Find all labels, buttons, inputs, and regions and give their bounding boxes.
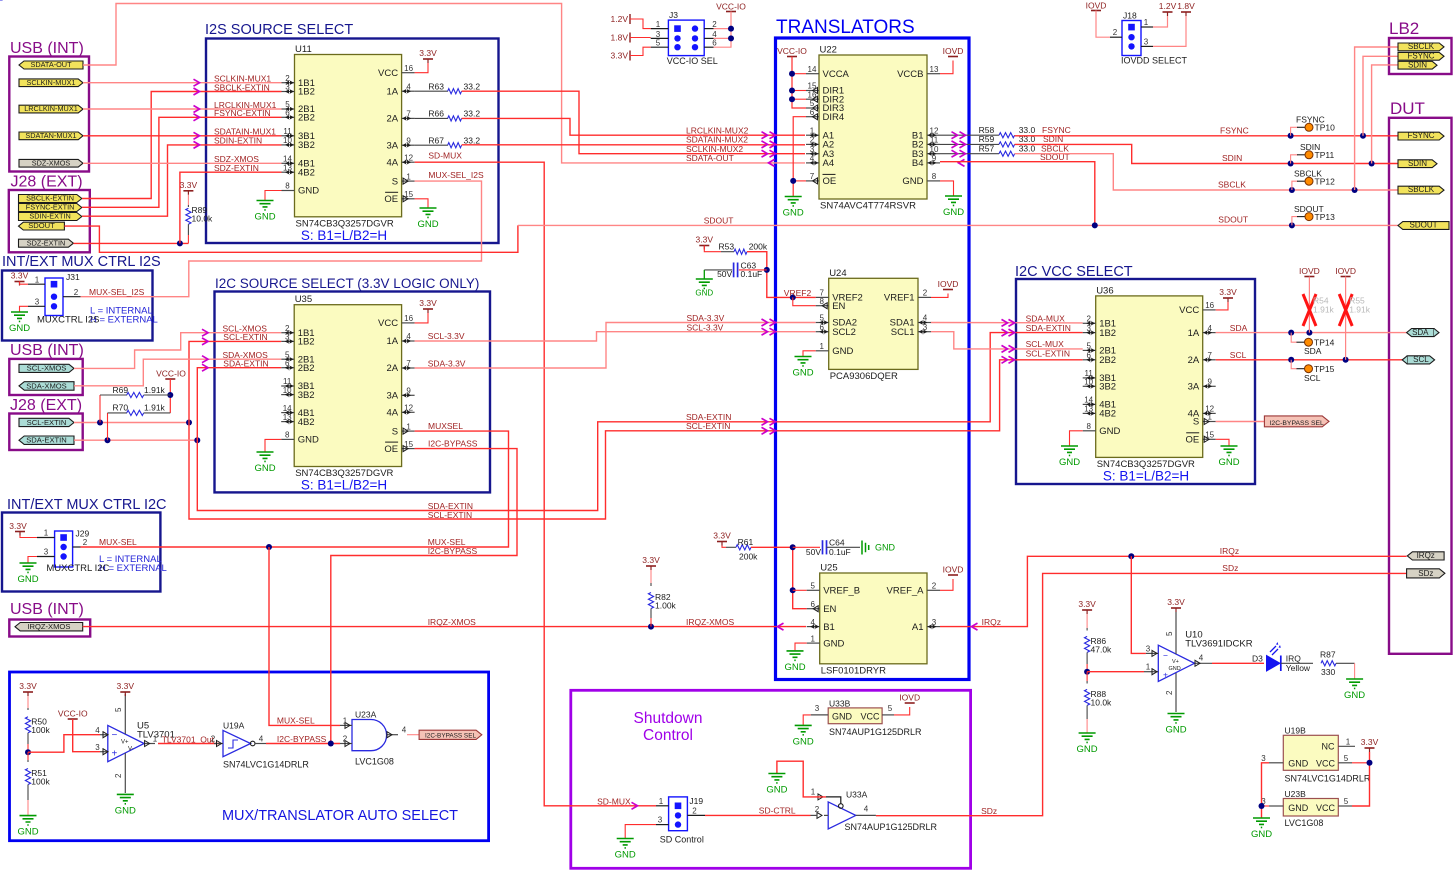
svg-text:10: 10 (283, 386, 292, 395)
wire SDOUT to TP13 (1292, 217, 1298, 226)
svg-text:5: 5 (656, 39, 661, 48)
net label MUX-SEL_I2S at J31 (89, 287, 145, 297)
svg-text:S: S (1193, 417, 1199, 428)
svg-text:GND: GND (298, 435, 319, 446)
wire SD-MUX long (415, 162, 656, 806)
svg-text:SBCLK: SBCLK (1218, 180, 1246, 190)
power 3.3V at J31 (11, 271, 29, 286)
svg-text:5: 5 (819, 314, 824, 323)
svg-text:GND: GND (784, 662, 805, 673)
net label SDOUT mid (1040, 152, 1070, 162)
svg-text:6: 6 (810, 108, 815, 117)
svg-text:8: 8 (285, 182, 290, 191)
svg-text:PCA9306DQER: PCA9306DQER (830, 371, 898, 382)
connector J31 (28, 272, 81, 316)
svg-text:R70: R70 (113, 403, 129, 413)
junction (1288, 161, 1294, 167)
svg-text:R66: R66 (428, 109, 444, 119)
junction (1306, 330, 1312, 336)
resistor R67 33.2 (415, 135, 481, 148)
port SDZ-XMOS (19, 158, 83, 167)
svg-text:1: 1 (810, 126, 815, 135)
power VCC-IO at U22 (777, 46, 807, 108)
svg-text:J18: J18 (1123, 11, 1137, 21)
svg-text:1B2: 1B2 (1099, 328, 1116, 339)
svg-text:33.2: 33.2 (464, 109, 481, 119)
svg-text:GND: GND (115, 805, 136, 816)
port SDATA-OUT (19, 60, 83, 69)
svg-text:1A: 1A (386, 336, 398, 347)
svg-text:16: 16 (404, 314, 413, 323)
svg-text:INT/EXT MUX CTRL I2S: INT/EXT MUX CTRL I2S (2, 254, 161, 270)
wire SBCLK to TP12 (1292, 181, 1298, 190)
wire SDATAN-MUX1 (83, 135, 282, 137)
wire SDOUT long to DUT (518, 224, 1398, 226)
IC U22 SN74AVC4T774RSVR (806, 45, 940, 212)
wire R61 to VREF_B (751, 547, 807, 608)
svg-text:H = EXTERNAL: H = EXTERNAL (90, 315, 158, 326)
section INT/EXT MUX CTRL I2S (2, 254, 161, 341)
svg-text:OE: OE (384, 194, 398, 205)
svg-text:MUX-SEL_I2S: MUX-SEL_I2S (89, 287, 145, 297)
power IOVD at J18 (1086, 1, 1110, 38)
svg-text:EN: EN (823, 604, 836, 615)
svg-text:3B2: 3B2 (298, 140, 315, 151)
svg-text:U35: U35 (295, 294, 312, 305)
svg-text:IRQZ-XMOS: IRQZ-XMOS (428, 617, 476, 627)
svg-text:2B2: 2B2 (298, 363, 315, 374)
section I2C SOURCE SELECT (215, 276, 491, 492)
ground U33B (793, 715, 814, 748)
svg-text:6: 6 (285, 109, 290, 118)
svg-text:I2C VCC SELECT: I2C VCC SELECT (1015, 264, 1133, 280)
net label SDA-XMOS at U35 (223, 350, 269, 360)
svg-text:3: 3 (285, 333, 290, 342)
port DUT SBCLK (1398, 185, 1444, 194)
buffer U33A SN74AUP1G125DRLR (811, 788, 938, 833)
svg-text:LB2: LB2 (1389, 19, 1419, 38)
ground at J19 (615, 825, 656, 861)
ground C63 (695, 270, 713, 298)
svg-text:3: 3 (658, 816, 663, 825)
svg-text:4: 4 (406, 332, 411, 341)
svg-text:4B2: 4B2 (298, 417, 315, 428)
connector J19 (656, 796, 705, 845)
port SCL-EXTIN (19, 418, 74, 427)
test point TP15 (1297, 364, 1335, 383)
wire DIR4 OE to ground (793, 117, 806, 196)
svg-text:50V: 50V (806, 547, 821, 557)
net label SDA (1230, 323, 1248, 333)
svg-text:IOVD: IOVD (1335, 266, 1356, 276)
wire SDZ-EXTIN branch to 4B2 (180, 172, 282, 243)
ground U24 (792, 351, 815, 379)
svg-text:SDA: SDA (1230, 323, 1248, 333)
chevrons U35 left (202, 329, 208, 371)
power 1.8V at J18 (1153, 1, 1195, 46)
resistor R59 33.0 (940, 134, 1036, 147)
resistor R82 1.00k (642, 555, 676, 627)
resistor R51 100k (25, 752, 50, 815)
resistor R86 47.0k (1078, 599, 1112, 672)
svg-text:1: 1 (819, 342, 824, 351)
wire SCLKIN-MUX1 (83, 82, 282, 84)
wire SCL-XMOS (74, 333, 281, 369)
power IOVD at U24 (931, 279, 958, 297)
svg-text:SN74LVC1G14DRLR: SN74LVC1G14DRLR (1285, 773, 1371, 783)
net label SBCLK-EXTIN (214, 82, 270, 92)
svg-text:3: 3 (1144, 37, 1149, 46)
net label SCLKIN-MUX2 (686, 144, 743, 154)
junction (194, 437, 200, 443)
svg-text:14: 14 (808, 65, 817, 74)
wire SCL out (1216, 359, 1407, 361)
svg-text:GND: GND (875, 543, 896, 553)
note S: B1=L/B2=H (301, 228, 387, 243)
svg-text:GND: GND (1251, 829, 1272, 840)
svg-text:OE: OE (1185, 435, 1199, 446)
svg-text:3.3V: 3.3V (117, 681, 135, 691)
resistor R58 33.0 (940, 125, 1036, 138)
svg-text:NC: NC (1322, 741, 1335, 751)
svg-text:SDIN: SDIN (1300, 142, 1320, 152)
resistor R61 200k (713, 531, 758, 562)
chevron IRQz (972, 623, 978, 630)
svg-text:SDA-3.3V: SDA-3.3V (428, 359, 466, 369)
svg-text:12: 12 (930, 126, 939, 135)
net label SCL-3.3V at U35 (428, 331, 465, 341)
svg-text:3.3V: 3.3V (419, 48, 437, 58)
net label IRQz right (1220, 546, 1239, 556)
svg-text:SDA-EXTIN: SDA-EXTIN (26, 436, 67, 445)
svg-text:4: 4 (923, 314, 928, 323)
svg-text:3.3V: 3.3V (9, 521, 27, 531)
svg-text:SD-MUX: SD-MUX (597, 797, 631, 807)
svg-text:TRANSLATORS: TRANSLATORS (776, 17, 915, 38)
svg-text:SCL-3.3V: SCL-3.3V (428, 331, 465, 341)
svg-text:S: B1=L/B2=H: S: B1=L/B2=H (301, 478, 387, 493)
svg-text:USB (INT): USB (INT) (10, 40, 84, 57)
connector J29 (37, 529, 89, 568)
port LRCLKIN-MUX1 (19, 104, 83, 113)
port DUT SDA (1407, 328, 1439, 337)
svg-text:0.1uF: 0.1uF (741, 269, 763, 279)
svg-text:GND: GND (695, 289, 713, 298)
net label SD-CTRL (759, 806, 796, 816)
svg-text:IRQ: IRQ (1286, 653, 1302, 663)
svg-text:IRQz: IRQz (1417, 551, 1435, 560)
svg-text:VCCA: VCCA (823, 69, 850, 80)
svg-text:330: 330 (1321, 667, 1335, 677)
wire SDIN-EXTIN (82, 145, 282, 216)
svg-text:GND: GND (1288, 803, 1309, 813)
wire SDA-MUX (931, 322, 1083, 324)
svg-text:1: 1 (1346, 737, 1351, 746)
capacitor C63 0.1uF (704, 261, 767, 280)
svg-text:VREF_B: VREF_B (823, 586, 860, 597)
net label SDA-EXTIN at U36 (1026, 323, 1071, 333)
svg-text:LRCLKIN-MUX1: LRCLKIN-MUX1 (24, 104, 78, 113)
svg-text:1: 1 (44, 529, 49, 538)
svg-text:GND: GND (1077, 744, 1098, 755)
svg-text:33.2: 33.2 (464, 135, 481, 145)
group DUT (1389, 99, 1452, 654)
svg-text:IRQz: IRQz (1220, 546, 1239, 556)
svg-text:GND: GND (1288, 758, 1309, 768)
svg-text:10.0k: 10.0k (1091, 698, 1113, 708)
junction (789, 71, 795, 77)
svg-text:MUX-SEL: MUX-SEL (277, 716, 315, 726)
svg-text:1.91k: 1.91k (144, 385, 166, 395)
svg-text:U11: U11 (295, 44, 312, 55)
svg-text:B4: B4 (912, 158, 924, 169)
svg-text:47.0k: 47.0k (1091, 645, 1113, 655)
svg-text:3: 3 (44, 548, 49, 557)
svg-text:3.3V: 3.3V (642, 555, 660, 565)
net label FSYNC-EXTIN (214, 108, 271, 118)
chevrons into translators A side (762, 132, 776, 167)
svg-text:VCC-IO: VCC-IO (156, 369, 186, 379)
svg-text:U22: U22 (820, 45, 837, 56)
junction (1369, 161, 1375, 167)
svg-text:1: 1 (35, 275, 40, 284)
junction (1128, 553, 1134, 559)
resistor R70 1.91k (0, 0, 170, 440)
junction (1259, 803, 1265, 809)
port I2C-BYPASS SEL at U36 (1216, 416, 1329, 427)
svg-text:100k: 100k (31, 777, 50, 787)
svg-text:GND: GND (766, 785, 787, 796)
ground at J29 (17, 557, 38, 586)
net label SCL-EXTIN mid (428, 510, 472, 520)
svg-text:SCL2: SCL2 (832, 327, 856, 338)
wire SDOUT from B4 (940, 162, 1095, 226)
junction (1288, 357, 1294, 363)
test point TP11 (1297, 142, 1334, 160)
svg-text:SBCLK-EXTIN: SBCLK-EXTIN (26, 194, 74, 203)
junction (1288, 133, 1294, 139)
svg-text:I2C-BYPASS SEL: I2C-BYPASS SEL (1270, 420, 1324, 427)
svg-text:1.8V: 1.8V (611, 33, 629, 43)
net label IRQZ-XMOS right (686, 617, 734, 627)
power 3.3V U11 VCC (415, 48, 437, 73)
net label SDZ-XMOS (214, 154, 259, 164)
net label SBCLK right (1218, 180, 1246, 190)
wire IRQz (940, 556, 1407, 626)
net label SCL-33V right (687, 322, 724, 332)
net label SCL-XMOS at U35 (223, 323, 268, 333)
chevrons into U24 (762, 319, 776, 335)
svg-text:SD-MUX: SD-MUX (428, 151, 462, 161)
svg-text:3: 3 (932, 618, 937, 627)
svg-text:VREF_A: VREF_A (887, 586, 925, 597)
net label TLV3701_Out (162, 734, 215, 744)
svg-text:+: + (1163, 670, 1168, 680)
svg-text:5: 5 (1165, 631, 1174, 636)
svg-text:SDIN: SDIN (1222, 153, 1242, 163)
svg-text:3: 3 (815, 704, 820, 713)
IC U33B SN74AUP1G125DRLR (811, 698, 922, 737)
net label SDz right (1222, 563, 1238, 573)
svg-text:3.3V: 3.3V (1361, 737, 1379, 747)
svg-text:7: 7 (810, 172, 815, 181)
svg-text:4: 4 (864, 804, 869, 813)
svg-text:2B2: 2B2 (1099, 355, 1116, 366)
svg-text:1: 1 (810, 634, 815, 643)
power 3.3V at U5 (117, 681, 135, 696)
svg-text:2: 2 (815, 805, 820, 814)
net label LRCLKIN-MUX2 (686, 125, 749, 135)
svg-text:16: 16 (808, 90, 817, 99)
group LB2 (1389, 19, 1452, 74)
junction (1084, 669, 1090, 675)
svg-text:2: 2 (1086, 315, 1091, 324)
svg-text:S: B1=L/B2=H: S: B1=L/B2=H (301, 228, 387, 243)
svg-text:1: 1 (1144, 18, 1149, 27)
net label SDOUT long wire (704, 216, 734, 226)
svg-text:SBCLK: SBCLK (1408, 185, 1435, 194)
svg-text:2A: 2A (386, 363, 398, 374)
test point TP13 (1294, 204, 1335, 222)
svg-text:100k: 100k (31, 725, 50, 735)
test point TP14 (1297, 337, 1335, 356)
power 1.2V at J18 (1153, 1, 1177, 27)
svg-text:16: 16 (1205, 301, 1214, 310)
IC U25 LSF0101DRYR (807, 563, 940, 677)
svg-text:U25: U25 (820, 563, 837, 574)
svg-text:3: 3 (1086, 324, 1091, 333)
ground C64 side (862, 541, 896, 555)
junction (1289, 187, 1295, 193)
svg-text:IRQZ-XMOS: IRQZ-XMOS (686, 617, 734, 627)
svg-text:2: 2 (692, 806, 697, 815)
svg-text:J31: J31 (66, 272, 80, 282)
test point TP12 (1294, 168, 1335, 186)
op-amp U5 TLV3701 (95, 694, 175, 793)
wire EN U24 (793, 297, 816, 305)
wire SDA-XMOS (74, 359, 281, 386)
svg-text:12: 12 (404, 153, 413, 162)
svg-text:5: 5 (810, 582, 815, 591)
svg-text:SCL: SCL (1413, 355, 1429, 364)
resistor R63 33.2 (415, 81, 481, 94)
svg-text:IOVD: IOVD (938, 279, 959, 289)
svg-text:SCL-XMOS: SCL-XMOS (27, 364, 67, 373)
svg-text:VCC: VCC (1316, 758, 1336, 768)
wire SDATA-OUT to translators A4 (83, 4, 805, 163)
svg-text:−: − (112, 730, 118, 741)
port SDA-EXTIN (19, 436, 74, 445)
junction (728, 26, 734, 32)
IC U36 SN74CB3Q3257DGVR (1083, 285, 1216, 470)
net label SDA-EXTIN mid2 (686, 412, 731, 422)
junction (328, 741, 334, 747)
svg-text:1: 1 (406, 422, 411, 431)
svg-text:2: 2 (211, 735, 216, 744)
svg-text:SCL: SCL (1230, 350, 1247, 360)
svg-text:4: 4 (259, 735, 264, 744)
net label MUX-SEL mid (428, 537, 466, 547)
svg-text:2: 2 (1165, 690, 1174, 695)
svg-text:1.91k: 1.91k (1313, 305, 1335, 315)
power IOVD at U33B (894, 693, 920, 715)
svg-text:7: 7 (406, 110, 411, 119)
svg-text:2B2: 2B2 (298, 113, 315, 124)
svg-text:GND: GND (254, 212, 275, 223)
IC U24 PCA9306DQER (816, 268, 931, 382)
port SDA-XMOS (19, 381, 74, 390)
svg-text:14: 14 (1084, 396, 1093, 405)
svg-text:SCL-EXTIN: SCL-EXTIN (27, 418, 67, 427)
svg-text:SDOUT: SDOUT (1294, 204, 1324, 214)
svg-text:13: 13 (930, 65, 939, 74)
svg-text:SDOUT: SDOUT (28, 221, 55, 230)
svg-text:VCC-IO: VCC-IO (58, 709, 88, 719)
port SDZ-EXTIN (19, 238, 74, 247)
svg-text:EN: EN (832, 301, 845, 312)
resistor R69 1.91k (100, 385, 170, 423)
svg-text:FSYNC: FSYNC (1407, 131, 1434, 140)
svg-text:2: 2 (712, 20, 717, 29)
svg-text:13: 13 (1084, 405, 1093, 414)
svg-text:3A: 3A (386, 140, 398, 151)
svg-text:1.91k: 1.91k (144, 403, 166, 413)
junction (1092, 222, 1098, 228)
svg-text:4: 4 (406, 82, 411, 91)
junction (790, 587, 796, 593)
svg-text:2: 2 (285, 74, 290, 83)
net label SDA-MUX (1026, 314, 1066, 324)
svg-text:3.3V: 3.3V (1219, 287, 1237, 297)
ground U35 GND pin (254, 439, 281, 474)
svg-text:2: 2 (343, 735, 348, 744)
svg-text:1: 1 (1207, 413, 1212, 422)
svg-text:FSYNC: FSYNC (1407, 51, 1434, 60)
svg-text:50V: 50V (717, 269, 732, 279)
svg-text:V+: V+ (121, 740, 129, 746)
resistor R53 200k (696, 235, 768, 255)
svg-text:SN74AUP1G125DRLR: SN74AUP1G125DRLR (845, 822, 938, 832)
ground R88 (1077, 733, 1098, 755)
svg-text:10.0k: 10.0k (192, 214, 214, 224)
svg-text:3: 3 (35, 297, 40, 306)
wire TLV3701_Out (158, 743, 219, 745)
svg-text:GND: GND (1099, 426, 1120, 437)
svg-text:GND: GND (832, 346, 853, 357)
note S: B1=L/B2=H (U36) (1103, 469, 1189, 484)
svg-text:3.3V: 3.3V (611, 51, 629, 61)
svg-text:7: 7 (406, 359, 411, 368)
svg-text:GND: GND (17, 574, 38, 585)
svg-text:SDOUT: SDOUT (1218, 215, 1248, 225)
svg-text:R57: R57 (979, 143, 995, 153)
wire SDA out (1216, 332, 1407, 334)
svg-text:SDATA-OUT: SDATA-OUT (30, 60, 72, 69)
ground U11 GND pin (254, 191, 281, 223)
junction (167, 392, 173, 398)
chevron 1B1 (194, 79, 200, 148)
svg-text:U36: U36 (1096, 285, 1113, 296)
net label SDATA-OUT (686, 153, 734, 163)
wire R53 to VREF2 (747, 252, 816, 298)
svg-text:IOVD: IOVD (1086, 1, 1107, 11)
svg-text:USB (INT): USB (INT) (10, 342, 84, 359)
ground R51 (17, 816, 38, 838)
wire MUXSEL (81, 431, 509, 547)
power 3.3V at U10 (1167, 597, 1185, 612)
port SCL-XMOS (19, 364, 74, 373)
svg-text:200k: 200k (739, 552, 758, 562)
